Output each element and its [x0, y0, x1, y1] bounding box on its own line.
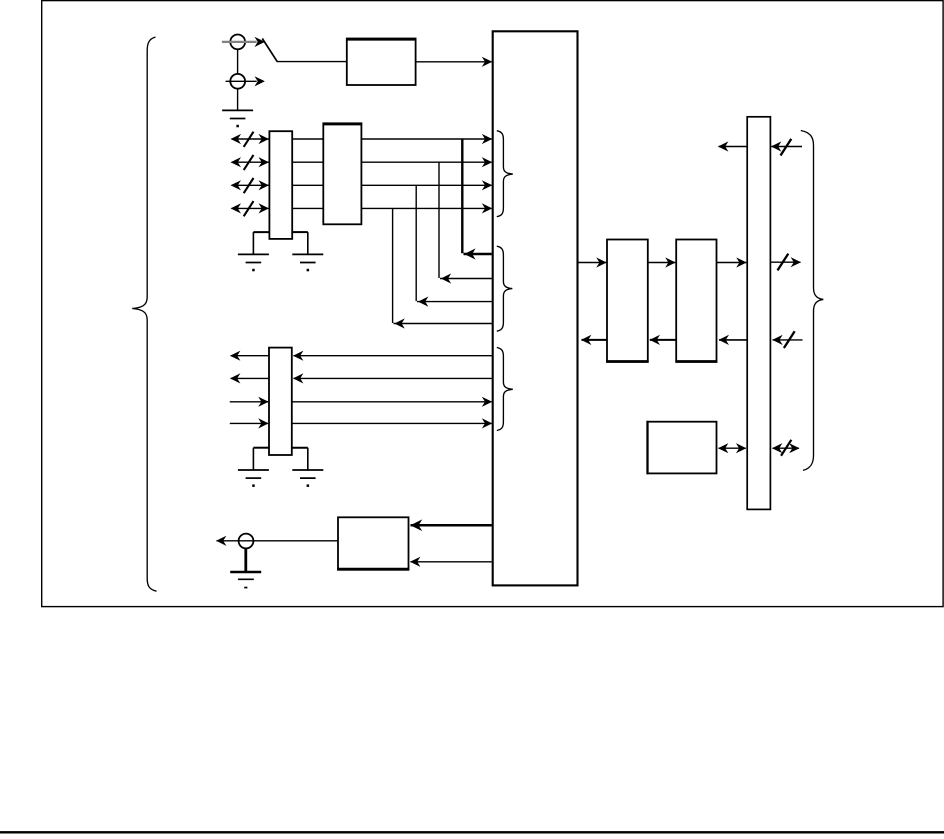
- bus line 2: [231, 155, 493, 170]
- ground: [238, 470, 269, 487]
- wire: [581, 335, 607, 345]
- io line 1: [230, 351, 492, 361]
- driver U6: [606, 240, 648, 363]
- wire feedback 2: [439, 162, 492, 283]
- ground: [292, 254, 323, 271]
- buffer U4: [269, 348, 292, 455]
- ground: [292, 470, 323, 487]
- connector J3: [239, 534, 254, 549]
- bus stub right 1: [771, 139, 802, 156]
- connector J2: [230, 74, 245, 89]
- wire: [244, 548, 247, 571]
- brace group 2: [497, 246, 513, 331]
- bus line 4: [231, 201, 493, 216]
- wire: [416, 61, 492, 63]
- wire: [578, 257, 607, 267]
- bus stub right 2: [770, 254, 801, 271]
- wire legs U2: [253, 232, 307, 254]
- wire: [222, 41, 257, 43]
- block A1: [346, 39, 416, 86]
- wire: [410, 519, 492, 531]
- wire feedback 1: [462, 139, 492, 260]
- wire: [718, 141, 747, 151]
- brace group 1: [497, 131, 513, 217]
- bus line 1: [231, 132, 493, 147]
- ground: [238, 254, 269, 271]
- main block U1: [493, 31, 578, 585]
- transceiver U9: [747, 117, 770, 510]
- wire: [650, 335, 677, 345]
- block U8: [648, 421, 717, 475]
- wire: [237, 89, 239, 111]
- wire: [719, 335, 748, 345]
- wire feedback 3: [416, 185, 492, 306]
- io line 2: [230, 373, 492, 383]
- brace left group: [132, 37, 156, 591]
- block U5: [337, 517, 409, 570]
- wire: [237, 49, 239, 74]
- ground: [222, 110, 253, 127]
- ground: [230, 572, 261, 588]
- wire: [717, 257, 747, 267]
- io line 3: [230, 397, 492, 407]
- driver U7: [675, 240, 717, 363]
- wire legs U4: [253, 448, 307, 470]
- wire: [648, 257, 676, 267]
- bus stub right 4: [772, 440, 800, 456]
- latch U3: [323, 123, 363, 224]
- buffer U2: [269, 131, 292, 239]
- bus stub right 3: [772, 331, 802, 348]
- switch S1: [262, 39, 277, 62]
- wire arrow: [482, 57, 492, 67]
- wire feedback 4: [393, 208, 492, 328]
- node output arrow: [216, 536, 226, 546]
- wire double arrow: [718, 443, 746, 453]
- io line 4: [230, 418, 492, 428]
- connector J1: [230, 35, 245, 50]
- bus line 3: [231, 178, 493, 193]
- wire: [217, 540, 339, 542]
- node J1 arrow: [255, 37, 265, 47]
- wire: [277, 61, 347, 63]
- wire: [226, 80, 257, 82]
- node J2 arrow: [255, 76, 265, 86]
- brace right group: [801, 131, 824, 471]
- wire: [410, 557, 492, 567]
- brace group 3: [497, 348, 513, 431]
